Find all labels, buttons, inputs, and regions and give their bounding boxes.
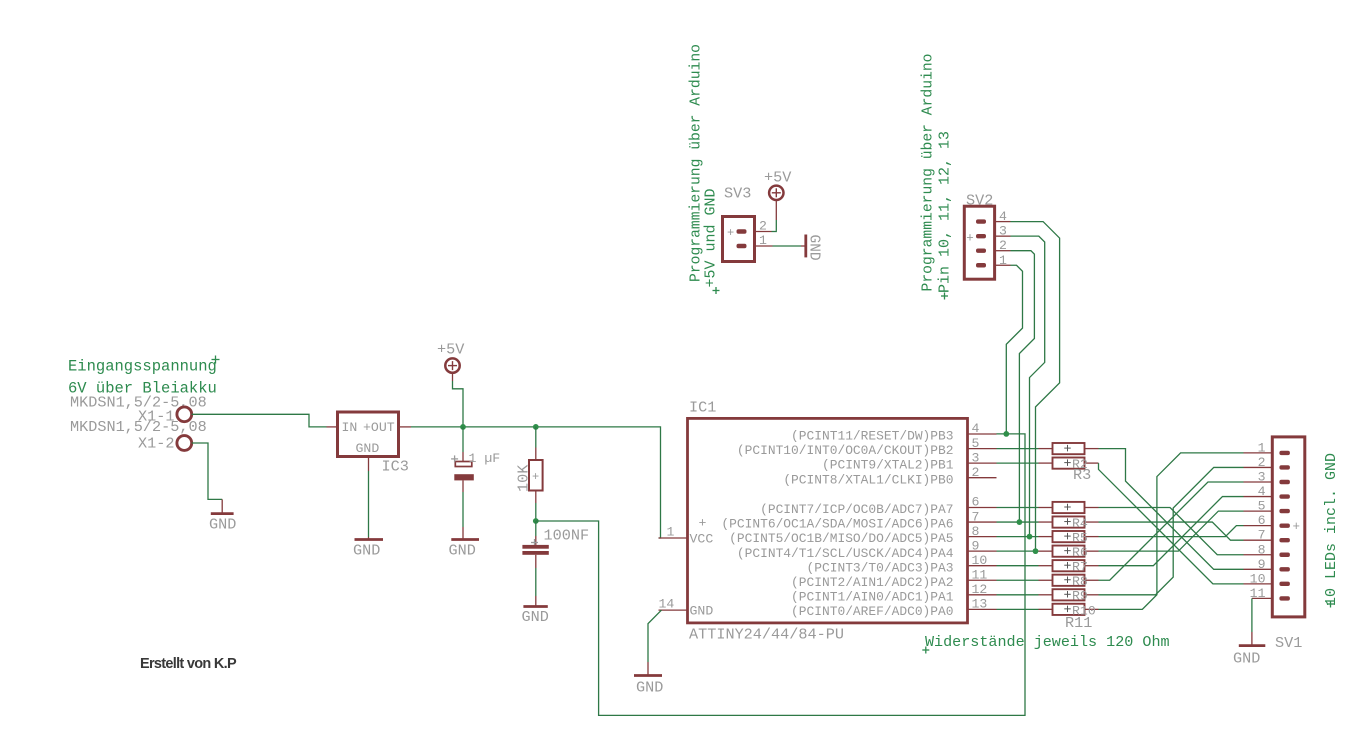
svg-text:+OUT: +OUT: [363, 420, 395, 435]
svg-text:MKDSN1,5/2-5,08: MKDSN1,5/2-5,08: [70, 418, 207, 436]
IC1 pin 6 (PA7) stub + label: [968, 507, 997, 509]
svg-text:2: 2: [1258, 455, 1266, 470]
svg-text:ATTINY24/44/84-PU: ATTINY24/44/84-PU: [689, 626, 844, 644]
ground at C1: [462, 527, 464, 540]
svg-text:Eingangsspannung: Eingangsspannung: [68, 358, 217, 376]
resistor row 5 (120 Ohm): [1039, 536, 1053, 538]
wire X1-2 to GND: [192, 443, 223, 499]
junction PA6 net: [1017, 519, 1023, 525]
ground at X1-2: [221, 499, 223, 513]
svg-text:13: 13: [972, 597, 988, 612]
SV1 pin 3 pad + stub + number: [1279, 480, 1290, 484]
IC1 pin 4 (PB3) stub + label: [968, 433, 997, 435]
svg-text:9: 9: [972, 538, 980, 553]
wire PA7 to SV1 pin8: [1099, 508, 1244, 555]
resistor R1 10K vertical: [535, 448, 537, 461]
svg-text:2: 2: [972, 465, 980, 480]
wire SV3 pin1 to ground: [773, 245, 802, 247]
wire PA2 to SV1 pin3: [1099, 482, 1244, 580]
svg-text:GND: GND: [449, 542, 476, 560]
svg-text:GND: GND: [353, 542, 380, 560]
svg-text:GND: GND: [522, 608, 549, 626]
svg-text:+: +: [1293, 520, 1301, 534]
svg-text:GND: GND: [690, 604, 714, 619]
svg-text:GND: GND: [806, 235, 822, 261]
svg-text:10: 10: [1250, 571, 1266, 586]
resistor row 2 (120 Ohm): [1039, 462, 1053, 464]
svg-text:+5V: +5V: [764, 169, 792, 187]
wire PA6 to resistor: [997, 521, 1039, 523]
wire C1 to ground: [462, 492, 464, 527]
svg-text:+5V und GND: +5V und GND: [703, 188, 720, 287]
svg-text:R11: R11: [1065, 614, 1092, 632]
wire SV2 pin2 to PA6: [1011, 251, 1035, 522]
wire PA2 to resistor: [997, 579, 1039, 581]
svg-text:GND: GND: [1233, 650, 1260, 668]
svg-text:(PCINT8/XTAL1/CLKI)PB0: (PCINT8/XTAL1/CLKI)PB0: [783, 472, 953, 487]
SV1 pin 1 pad + stub + number: [1279, 451, 1290, 455]
IC1 pin 2 (PB0) stub + label: [968, 477, 997, 479]
resistor row 7 (120 Ohm): [1039, 565, 1053, 567]
svg-text:IC3: IC3: [382, 458, 409, 476]
SV1 pin 9 pad + stub + number: [1279, 567, 1290, 571]
svg-text:100NF: 100NF: [544, 527, 590, 545]
resistor row 6 (120 Ohm): [1039, 550, 1053, 552]
ground at IC3: [368, 537, 370, 540]
svg-text:(PCINT4/T1/SCL/USCK/ADC4)PA4: (PCINT4/T1/SCL/USCK/ADC4)PA4: [737, 546, 954, 561]
svg-text:7: 7: [972, 509, 980, 524]
svg-text:SV3: SV3: [724, 185, 751, 203]
svg-text:GND: GND: [209, 516, 236, 534]
svg-text:(PCINT2/AIN1/ADC2)PA2: (PCINT2/AIN1/ADC2)PA2: [791, 575, 953, 590]
svg-text:9: 9: [1258, 557, 1266, 572]
svg-text:4: 4: [972, 421, 980, 436]
svg-text:Pin 10, 11, 12, 13: Pin 10, 11, 12, 13: [937, 131, 954, 293]
svg-text:VCC: VCC: [690, 532, 714, 547]
junction RESET net: [1003, 431, 1009, 437]
wire SV3 pin2 to +5V: [775, 220, 777, 231]
connector X1-1 pad: [177, 407, 192, 422]
svg-text:IC1: IC1: [689, 399, 716, 417]
ground at SV1: [1251, 632, 1253, 646]
wire R3/PB1 to SV1 pin10: [1099, 463, 1244, 584]
wire PA3 to SV1 pin4: [1099, 497, 1244, 566]
wire rail to R1: [535, 427, 537, 448]
svg-text:1 µF: 1 µF: [469, 451, 501, 466]
svg-text:10: 10: [972, 553, 988, 568]
svg-text:(PCINT1/AIN0/ADC1)PA1: (PCINT1/AIN0/ADC1)PA1: [791, 589, 954, 604]
svg-text:10K: 10K: [515, 464, 533, 492]
resistor row 8 (120 Ohm): [1039, 579, 1053, 581]
SV1 pin 6 pad + stub + number: [1279, 523, 1290, 527]
capacitor 1uF polarized: [462, 427, 464, 452]
SV1 pin 11 pad + stub + number: [1279, 596, 1290, 600]
SV2 pin 2 stub + label: [995, 250, 1011, 252]
svg-text:+: +: [699, 516, 707, 531]
junction PA5 net: [1027, 534, 1033, 540]
svg-text:R3: R3: [1073, 466, 1091, 484]
svg-text:Erstellt von K.P: Erstellt von K.P: [140, 656, 237, 672]
SV2 pin 4 stub + label: [995, 221, 1011, 223]
wire PA4 to SV1 pin5: [1099, 511, 1244, 551]
svg-text:1: 1: [999, 253, 1007, 268]
resistor row 10 (120 Ohm): [1039, 608, 1053, 610]
wire R2/PB2 to SV1 pin9: [1099, 449, 1244, 570]
wire SV2 pin4 to PA4: [1011, 222, 1060, 552]
svg-text:(PCINT10/INT0/OC0A/CKOUT)PB2: (PCINT10/INT0/OC0A/CKOUT)PB2: [737, 443, 954, 458]
wire +5V rail from IC3 OUT to IC1 VCC: [411, 427, 661, 538]
SV1 pin 7 pad + stub + number: [1279, 538, 1290, 542]
svg-text:2: 2: [759, 218, 767, 233]
svg-text:IN: IN: [342, 420, 358, 435]
svg-text:R6: R6: [1072, 545, 1088, 560]
wire PB1 to R3: [997, 462, 1039, 464]
svg-text:8: 8: [1258, 542, 1266, 557]
wire PA0 to SV1 pin1: [1099, 453, 1244, 609]
wire PA3 to resistor: [997, 565, 1039, 567]
connector SV1 body: [1272, 437, 1305, 617]
IC1 pin 10 (PA3) stub + label: [968, 565, 997, 567]
svg-text:1: 1: [759, 233, 767, 248]
wire PA7 to resistor: [997, 507, 1039, 509]
svg-text:R4: R4: [1072, 516, 1088, 531]
IC1 pin 11 (PA2) stub + label: [968, 579, 997, 581]
svg-text:1: 1: [1258, 440, 1266, 455]
wire PA4 to resistor: [997, 550, 1039, 552]
svg-text:(PCINT5/OC1B/MISO/DO/ADC5)PA5: (PCINT5/OC1B/MISO/DO/ADC5)PA5: [729, 531, 953, 546]
wire PA0 to resistor: [997, 608, 1039, 610]
microcontroller IC1 body: [688, 418, 968, 623]
svg-text:3: 3: [999, 224, 1007, 239]
wire PB2 to R2: [997, 448, 1039, 450]
ground at IC1 pin14: [647, 662, 649, 676]
junction rail / 10K: [533, 424, 539, 430]
junction PA4 net: [1033, 548, 1039, 554]
wire RESET node to bottom run: [536, 434, 1025, 716]
svg-text:(PCINT3/T0/ADC3)PA3: (PCINT3/T0/ADC3)PA3: [807, 560, 954, 575]
svg-text:(PCINT0/AREF/ADC0)PA0: (PCINT0/AREF/ADC0)PA0: [791, 604, 953, 619]
svg-text:R5: R5: [1072, 531, 1088, 546]
IC1 pin 9 (PA4) stub + label: [968, 550, 997, 552]
wire PA1 to SV1 pin2: [1099, 467, 1244, 594]
svg-text:2: 2: [999, 238, 1007, 253]
SV2 pin 1 stub + label: [995, 264, 1011, 266]
svg-text:10 LEDs incl. GND: 10 LEDs incl. GND: [1323, 453, 1340, 606]
svg-text:SV1: SV1: [1275, 634, 1302, 652]
wire SV2 pin3 to PA5: [1011, 236, 1045, 536]
SV3 pin 1 stub + label: [755, 245, 773, 247]
SV1 pin 4 pad + stub + number: [1279, 494, 1290, 498]
resistor row 3 (120 Ohm): [1039, 507, 1053, 509]
ground at 100NF: [535, 596, 537, 607]
wire SV2 pin1 to RESET net: [1006, 265, 1022, 434]
IC1 pin 13 (PA0) stub + label: [968, 608, 997, 610]
svg-text:(PCINT6/OC1A/SDA/MOSI/ADC6)PA6: (PCINT6/OC1A/SDA/MOSI/ADC6)PA6: [721, 517, 953, 532]
SV2 pin 3 stub + label: [995, 235, 1011, 237]
voltage regulator IC3 body: [338, 412, 399, 457]
svg-text:1: 1: [667, 525, 675, 540]
svg-text:R9: R9: [1072, 589, 1088, 604]
svg-text:Programmierung über Arduino: Programmierung über Arduino: [921, 54, 937, 292]
svg-text:X1-2: X1-2: [138, 435, 174, 453]
junction rail / C1: [460, 424, 466, 430]
IC1 pin 12 (PA1) stub + label: [968, 594, 997, 596]
svg-text:14: 14: [659, 597, 675, 612]
connector X1-2 pad: [177, 436, 192, 451]
IC3 pin IN stub: [327, 426, 338, 428]
IC1 pin 14 GND stub: [659, 609, 688, 611]
svg-text:6: 6: [1258, 513, 1266, 528]
wire PA6 to SV1 pin7: [1099, 522, 1244, 540]
svg-text:8: 8: [972, 524, 980, 539]
svg-text:3: 3: [1258, 470, 1266, 485]
svg-text:Widerstände jeweils 120 Ohm: Widerstände jeweils 120 Ohm: [925, 633, 1170, 651]
SV3 pin 2 stub + label: [755, 231, 772, 233]
svg-text:(PCINT7/ICP/OC0B/ADC7)PA7: (PCINT7/ICP/OC0B/ADC7)PA7: [760, 502, 953, 517]
IC1 pin 7 (PA6) stub + label: [968, 521, 997, 523]
wire PA1 to resistor: [997, 594, 1039, 596]
svg-text:R7: R7: [1072, 560, 1088, 575]
ground at SV3 (rotated): [801, 245, 806, 247]
IC3 pin GND stub and wire to ground: [368, 457, 370, 472]
SV1 pin 11 stub: [1252, 597, 1272, 599]
SV1 pin 10 pad + stub + number: [1279, 582, 1290, 586]
SV1 pin 2 pad + stub + number: [1279, 465, 1290, 469]
wire SV1 pin11 to ground: [1251, 598, 1253, 632]
wire X1-1 to IC3 IN: [192, 414, 327, 427]
svg-text:5: 5: [972, 436, 980, 451]
svg-text:4: 4: [999, 209, 1007, 224]
svg-text:11: 11: [972, 567, 988, 582]
svg-text:+: +: [727, 226, 734, 240]
IC1 pin 1 VCC stub: [659, 537, 688, 539]
IC3 pin OUT stub: [399, 426, 412, 428]
wire R1 to node: [535, 503, 537, 521]
wire PA5 to resistor: [997, 536, 1039, 538]
IC1 pin 8 (PA5) stub + label: [968, 536, 997, 538]
svg-text:12: 12: [972, 582, 988, 597]
svg-text:5: 5: [1258, 499, 1266, 514]
resistor row 9 (120 Ohm): [1039, 594, 1053, 596]
svg-text:GND: GND: [356, 441, 380, 456]
SV1 pin 8 pad + stub + number: [1279, 553, 1290, 557]
svg-text:+: +: [532, 470, 539, 484]
IC1 pin 5 (PB2) stub + label: [968, 448, 997, 450]
wire PA5 to SV1 pin6: [1099, 526, 1244, 537]
svg-text:+5V: +5V: [437, 341, 465, 359]
resistor row 4 (120 Ohm): [1039, 521, 1053, 523]
svg-text:R8: R8: [1072, 574, 1088, 589]
svg-text:+: +: [966, 231, 974, 245]
wire +5V to rail: [453, 381, 464, 427]
svg-text:(PCINT9/XTAL2)PB1: (PCINT9/XTAL2)PB1: [822, 458, 954, 473]
svg-text:6: 6: [972, 495, 980, 510]
wire 100NF to ground: [535, 568, 537, 596]
svg-text:7: 7: [1258, 528, 1266, 543]
svg-text:3: 3: [972, 450, 980, 465]
svg-text:GND: GND: [636, 679, 663, 697]
SV1 pin 5 pad + stub + number: [1279, 509, 1290, 513]
capacitor 100NF: [535, 521, 537, 536]
svg-text:4: 4: [1258, 484, 1266, 499]
resistor row 1 (120 Ohm): [1039, 448, 1053, 450]
wire IC1 pin14 to ground: [648, 610, 662, 662]
svg-text:(PCINT11/RESET/DW)PB3: (PCINT11/RESET/DW)PB3: [791, 429, 953, 444]
IC1 pin 3 (PB1) stub + label: [968, 462, 997, 464]
junction node RESET/100NF: [533, 518, 539, 524]
